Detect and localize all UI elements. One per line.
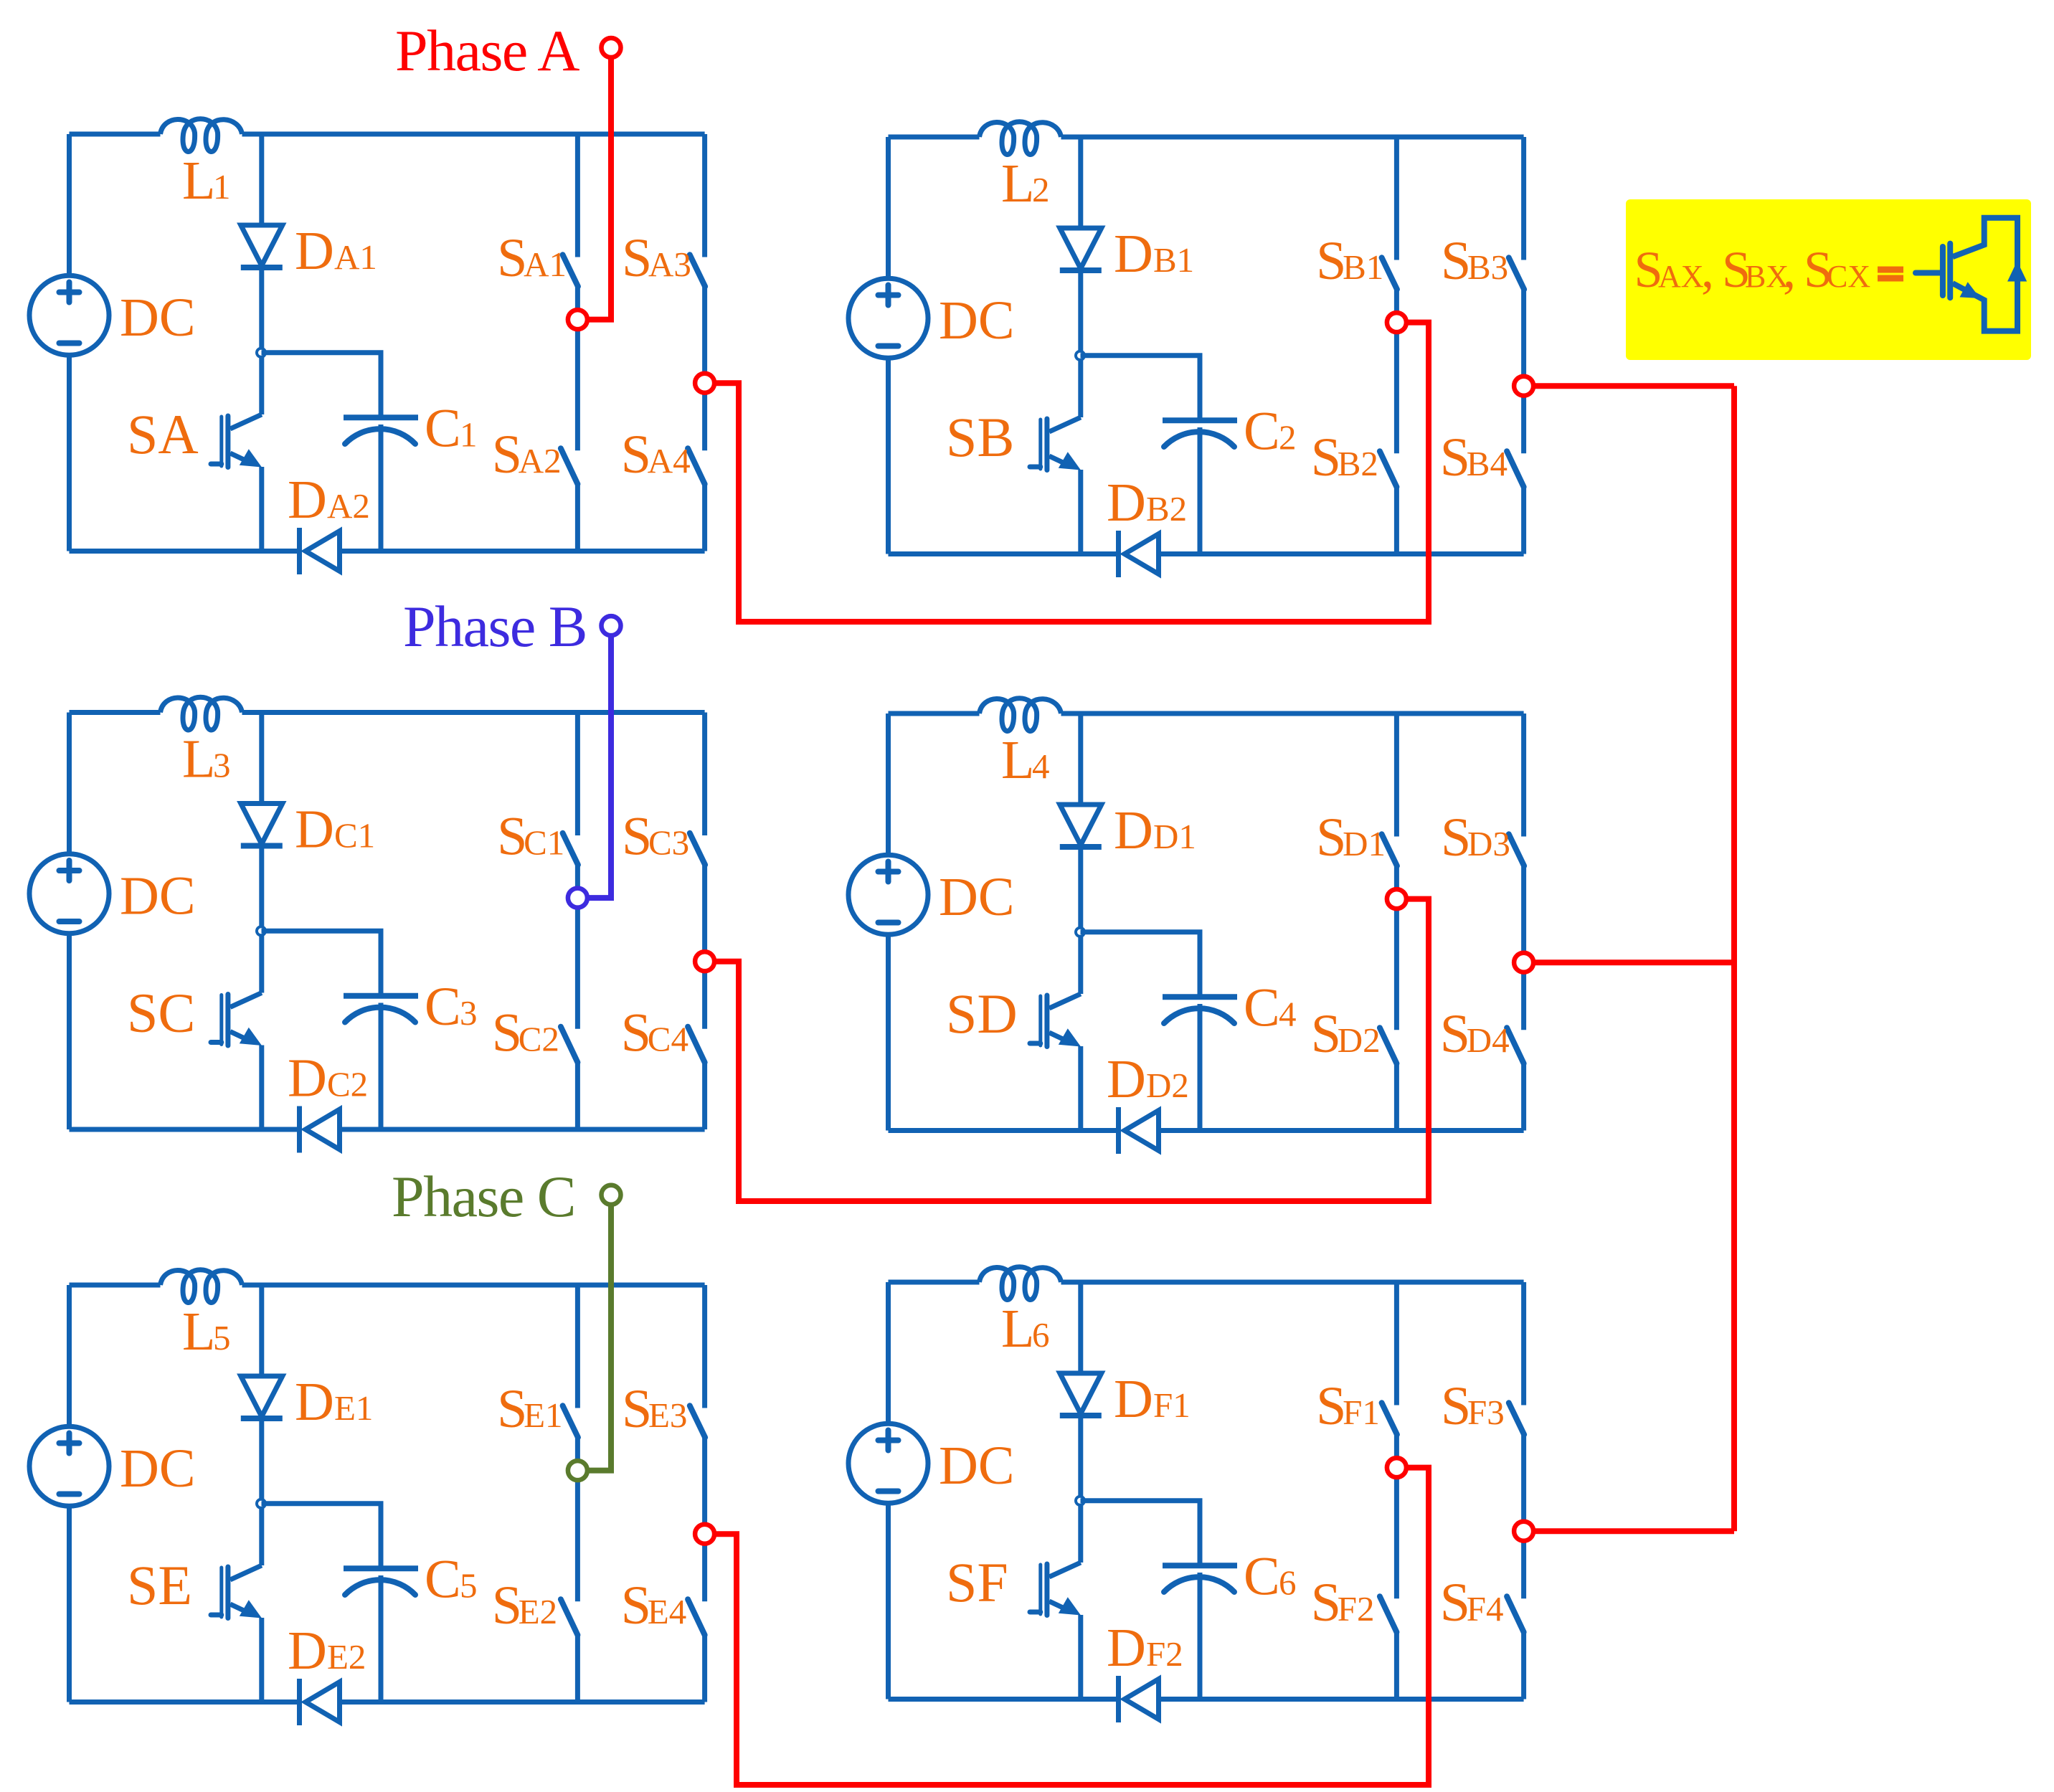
- svg-text:S: S: [1316, 1376, 1346, 1436]
- IGBT SF: [1030, 1610, 1041, 1615]
- svg-text:L: L: [182, 729, 215, 790]
- svg-text:B2: B2: [1338, 444, 1378, 483]
- svg-text:S: S: [621, 1003, 651, 1063]
- svg-text:D: D: [1107, 473, 1146, 533]
- switch SA1: [575, 134, 580, 257]
- svg-text:L: L: [182, 151, 215, 211]
- wire: leg2 middle: [702, 865, 707, 1029]
- svg-text:D: D: [1114, 800, 1153, 861]
- svg-text:E2: E2: [519, 1592, 557, 1631]
- svg-text:SF: SF: [946, 1551, 1008, 1613]
- capacitor C6: [1163, 1563, 1237, 1568]
- wire: node to capacitor: [1081, 1501, 1201, 1563]
- svg-text:D: D: [1114, 1369, 1153, 1429]
- svg-text:C: C: [425, 977, 461, 1037]
- node: phase B to SC1/SC2 midpoint: [568, 888, 587, 908]
- switch SB3: [1521, 137, 1526, 260]
- Phase C terminal: [602, 1185, 621, 1205]
- DC source SF: [848, 1423, 928, 1503]
- Phase B terminal: [602, 616, 621, 635]
- switch SD1: [1394, 714, 1399, 837]
- svg-text:D1: D1: [1153, 817, 1196, 856]
- wire: cell SF top rail: [889, 1280, 980, 1285]
- svg-text:C1: C1: [524, 823, 564, 863]
- node: phase C to SE1/SE2 midpoint: [568, 1461, 587, 1480]
- svg-text:A3: A3: [648, 245, 691, 284]
- switch SD2: [1380, 1028, 1397, 1063]
- svg-text:F2: F2: [1146, 1634, 1183, 1674]
- switch SF2: [1380, 1596, 1397, 1632]
- svg-text:C3: C3: [648, 823, 689, 863]
- svg-text:S: S: [1311, 1573, 1341, 1633]
- svg-text:S: S: [492, 425, 522, 485]
- svg-text:L: L: [1001, 1299, 1034, 1359]
- switch SF3: [1521, 1282, 1526, 1405]
- inductor L1: [161, 119, 242, 152]
- diode DE1: [259, 1285, 264, 1376]
- inductor L6: [980, 1267, 1061, 1300]
- svg-text:Phase B: Phase B: [403, 594, 587, 659]
- switch SA4: [688, 448, 705, 484]
- svg-text:E4: E4: [648, 1592, 686, 1631]
- wire: cell C output to cell D input: [714, 899, 1429, 1201]
- diode DA2: [297, 528, 302, 574]
- svg-text:S: S: [1440, 1573, 1470, 1633]
- wire: cell SE left rail: [67, 1285, 72, 1427]
- svg-text:CX: CX: [1827, 259, 1870, 294]
- IGBT SE: [211, 1613, 222, 1618]
- svg-text:2: 2: [1279, 418, 1297, 458]
- DC source SD: [848, 855, 928, 934]
- wire: cell SD bottom rail: [889, 1128, 1119, 1133]
- svg-text:B1: B1: [1343, 247, 1383, 287]
- svg-text:B1: B1: [1153, 240, 1194, 280]
- diode DD2: [1116, 1107, 1121, 1154]
- wire: cell A output to cell B input: [714, 323, 1429, 622]
- svg-text:DC: DC: [120, 1438, 196, 1499]
- switch SE3: [702, 1285, 707, 1408]
- wire: Phase C lead: [587, 1206, 611, 1471]
- svg-text:C: C: [1244, 1547, 1280, 1607]
- diode DA1: [259, 134, 264, 225]
- capacitor C4: [1163, 994, 1237, 1000]
- svg-text:S: S: [497, 1379, 527, 1439]
- wire: cell D output to neutral bus: [1533, 959, 1734, 965]
- wire: cell SE bottom rail: [70, 1699, 300, 1705]
- wire: cell SB bottom rail: [889, 551, 1119, 556]
- capacitor C3: [344, 993, 418, 999]
- node: [257, 1499, 265, 1508]
- svg-text:D1: D1: [1343, 824, 1386, 863]
- svg-text:AX: AX: [1658, 259, 1704, 294]
- svg-text:A1: A1: [524, 245, 567, 284]
- node: [257, 349, 265, 357]
- svg-text:,: ,: [1701, 241, 1714, 298]
- svg-text:4: 4: [1032, 746, 1050, 786]
- svg-text:B2: B2: [1146, 489, 1187, 528]
- wire: leg1 middle: [575, 865, 580, 1029]
- wire: leg1 middle: [1394, 1434, 1399, 1598]
- wire: Phase B lead: [587, 637, 611, 898]
- svg-text:S: S: [1441, 231, 1471, 291]
- wire: node to capacitor: [1081, 932, 1201, 995]
- svg-text:Phase A: Phase A: [395, 18, 579, 83]
- switch SC3: [702, 713, 707, 836]
- wire: cell SF bottom rail: [889, 1697, 1119, 1702]
- svg-text:6: 6: [1032, 1315, 1050, 1355]
- capacitor C5: [344, 1565, 418, 1571]
- wire: cell SC top rail: [70, 710, 161, 715]
- node: [257, 926, 265, 935]
- diode DF2: [1116, 1676, 1121, 1722]
- diode DF1: [1078, 1282, 1083, 1373]
- svg-text:F3: F3: [1467, 1393, 1505, 1432]
- svg-text:S: S: [622, 807, 652, 867]
- svg-text:Phase C: Phase C: [392, 1164, 575, 1229]
- wire: diode to node: [1078, 1416, 1083, 1563]
- inductor L5: [161, 1270, 242, 1303]
- wire: neutral bus: [1731, 386, 1737, 1531]
- inductor L2: [980, 122, 1061, 155]
- switch SF1: [1394, 1282, 1399, 1405]
- wire: leg1 middle: [1394, 866, 1399, 1030]
- svg-text:D: D: [295, 800, 334, 860]
- diode DB2: [1116, 531, 1121, 577]
- svg-text:5: 5: [213, 1318, 231, 1357]
- svg-text:S: S: [497, 807, 527, 867]
- wire: cell F output to neutral bus: [1533, 1528, 1734, 1534]
- switch SC2: [561, 1027, 578, 1063]
- svg-text:DC: DC: [120, 866, 196, 926]
- svg-text:SD: SD: [946, 982, 1018, 1045]
- node: phase A to SA1/SA2 midpoint: [568, 310, 587, 329]
- wire: cell SD left rail: [886, 714, 891, 855]
- wire: node to capacitor: [1081, 356, 1201, 418]
- svg-text:,: ,: [1783, 241, 1796, 298]
- node: SA3/SA4 midpoint output: [695, 374, 714, 393]
- node: [1076, 928, 1084, 937]
- IGBT SB: [1030, 465, 1041, 470]
- diode DC1: [259, 713, 264, 804]
- svg-text:4: 4: [1279, 995, 1297, 1034]
- wire: cell SA top rail: [70, 132, 161, 137]
- svg-text:E3: E3: [648, 1395, 687, 1435]
- wire: leg2 middle: [702, 286, 707, 450]
- wire: cell SB left rail: [886, 137, 891, 279]
- wire: leg2 middle: [1521, 1434, 1526, 1598]
- switch SE2: [561, 1599, 578, 1635]
- svg-text:D: D: [295, 1372, 334, 1432]
- wire: cell SA left rail: [67, 134, 72, 276]
- svg-text:D2: D2: [1146, 1066, 1189, 1105]
- IGBT SA: [211, 462, 222, 467]
- wire: Phase A lead: [587, 59, 611, 320]
- svg-text:L: L: [1001, 730, 1034, 790]
- svg-text:B4: B4: [1467, 444, 1508, 483]
- wire: cell SD top rail: [889, 711, 980, 716]
- svg-text:D4: D4: [1467, 1020, 1510, 1060]
- switch SB4: [1507, 451, 1524, 487]
- wire: diode to node: [259, 846, 264, 993]
- svg-text:BX: BX: [1745, 259, 1789, 294]
- inductor L3: [161, 697, 242, 730]
- wire: leg1 middle: [1394, 289, 1399, 453]
- capacitor C1: [344, 414, 418, 420]
- svg-text:A1: A1: [334, 237, 377, 277]
- wire: diode to node: [259, 267, 264, 414]
- svg-text:E1: E1: [334, 1388, 373, 1428]
- svg-text:DC: DC: [939, 1436, 1015, 1496]
- wire: cell SE top rail: [70, 1283, 161, 1288]
- wire: cell E output to cell F input: [714, 1468, 1429, 1785]
- wire: leg2 middle: [1521, 866, 1526, 1030]
- svg-text:SC: SC: [127, 982, 195, 1044]
- wire: node to capacitor: [262, 931, 382, 993]
- svg-text:D: D: [1107, 1618, 1146, 1678]
- node: [1076, 1497, 1084, 1505]
- svg-text:S: S: [1316, 807, 1346, 868]
- svg-text:C2: C2: [327, 1065, 368, 1104]
- svg-text:S: S: [1440, 1004, 1470, 1064]
- node: SD3/SD4 midpoint to bus: [1514, 953, 1533, 972]
- switch SE1: [575, 1285, 580, 1408]
- svg-text:S: S: [622, 1379, 652, 1439]
- node: SF3/SF4 midpoint to bus: [1514, 1522, 1533, 1541]
- wire: leg2 middle: [1521, 289, 1526, 453]
- svg-text:S: S: [492, 1575, 522, 1636]
- svg-text:6: 6: [1279, 1563, 1297, 1603]
- node: SF1/SF2 midpoint input: [1387, 1458, 1406, 1477]
- svg-text:E2: E2: [327, 1637, 366, 1677]
- svg-text:A4: A4: [648, 441, 691, 480]
- node: SD1/SD2 midpoint input: [1387, 889, 1406, 909]
- svg-text:S: S: [497, 228, 527, 288]
- node: [1076, 351, 1084, 360]
- svg-text:SB: SB: [946, 406, 1014, 468]
- svg-text:D: D: [295, 221, 334, 281]
- svg-text:S: S: [1441, 807, 1471, 868]
- svg-text:S: S: [1440, 427, 1470, 488]
- svg-text:S: S: [621, 425, 651, 485]
- svg-text:D: D: [1114, 224, 1153, 284]
- switch SE4: [688, 1599, 705, 1635]
- svg-text:DC: DC: [939, 867, 1015, 927]
- switch SF4: [1507, 1596, 1524, 1632]
- svg-text:C: C: [1244, 402, 1280, 462]
- wire: diode to node: [259, 1418, 264, 1565]
- svg-text:C2: C2: [519, 1020, 559, 1059]
- wire: node to capacitor: [262, 353, 382, 415]
- svg-text:F1: F1: [1153, 1385, 1191, 1425]
- switch SA2: [561, 448, 578, 484]
- diode DD1: [1078, 714, 1083, 805]
- svg-text:S: S: [492, 1003, 522, 1063]
- wire: diode to node: [1078, 847, 1083, 994]
- svg-text:D3: D3: [1467, 824, 1510, 863]
- diode DE2: [297, 1679, 302, 1725]
- inductor L4: [980, 698, 1061, 731]
- svg-text:S: S: [1311, 1004, 1341, 1064]
- svg-text:1: 1: [213, 167, 231, 207]
- IGBT SC: [211, 1040, 222, 1045]
- wire: leg1 middle: [575, 1437, 580, 1601]
- switch SD4: [1507, 1028, 1524, 1063]
- svg-text:D: D: [288, 1048, 327, 1109]
- DC source SB: [848, 278, 928, 358]
- svg-text:L: L: [1001, 153, 1034, 214]
- svg-text:S: S: [621, 1575, 651, 1636]
- svg-text:A2: A2: [519, 441, 562, 480]
- node: SB1/SB2 midpoint input: [1387, 313, 1406, 332]
- svg-text:C: C: [425, 399, 461, 459]
- svg-text:F4: F4: [1467, 1589, 1504, 1629]
- wire: cell SB top rail: [889, 135, 980, 140]
- wire: cell SC bottom rail: [70, 1127, 300, 1132]
- legend IGBT symbol: [1916, 218, 2017, 331]
- legend box: [1626, 199, 2031, 360]
- svg-text:C: C: [1244, 978, 1280, 1038]
- svg-text:3: 3: [213, 746, 231, 785]
- svg-text:S: S: [622, 228, 652, 288]
- wire: leg1 middle: [575, 286, 580, 450]
- svg-text:L: L: [182, 1302, 215, 1362]
- svg-text:S: S: [1441, 1376, 1471, 1436]
- switch SC4: [688, 1027, 705, 1063]
- svg-text:1: 1: [460, 415, 478, 455]
- svg-text:D: D: [288, 470, 327, 530]
- Phase A terminal: [602, 38, 621, 57]
- switch SA3: [702, 134, 707, 257]
- wire: cell SF left rail: [886, 1282, 891, 1424]
- svg-text:E1: E1: [524, 1395, 562, 1435]
- svg-text:F1: F1: [1343, 1393, 1380, 1432]
- DC source SC: [29, 854, 109, 934]
- svg-text:C: C: [425, 1550, 461, 1610]
- svg-text:S: S: [1311, 427, 1341, 488]
- wire: leg2 middle: [702, 1437, 707, 1601]
- diode DB1: [1078, 137, 1083, 228]
- wire: cell SC left rail: [67, 713, 72, 855]
- node: SC3/SC4 midpoint output: [695, 952, 714, 971]
- svg-text:F2: F2: [1338, 1589, 1375, 1629]
- legend equals sign: [1878, 267, 1903, 273]
- wire: node to capacitor: [262, 1504, 382, 1566]
- svg-text:SA: SA: [127, 403, 199, 465]
- svg-text:D: D: [1107, 1049, 1146, 1109]
- svg-text:SE: SE: [127, 1554, 192, 1616]
- DC source SA: [29, 275, 109, 355]
- switch SB1: [1394, 137, 1399, 260]
- svg-text:5: 5: [460, 1566, 478, 1606]
- svg-text:DC: DC: [939, 290, 1015, 351]
- wire: diode to node: [1078, 270, 1083, 417]
- svg-text:B3: B3: [1467, 247, 1508, 287]
- switch SB2: [1380, 451, 1397, 487]
- wire: cell SA bottom rail: [70, 549, 300, 554]
- svg-text:D: D: [288, 1621, 327, 1681]
- diode DC2: [297, 1106, 302, 1153]
- DC source SE: [29, 1426, 109, 1506]
- switch SD3: [1521, 714, 1526, 837]
- IGBT SD: [1030, 1041, 1041, 1046]
- svg-text:C1: C1: [334, 816, 375, 855]
- svg-text:3: 3: [460, 993, 478, 1033]
- svg-text:C4: C4: [648, 1020, 688, 1059]
- svg-text:A2: A2: [327, 486, 370, 526]
- svg-text:DC: DC: [120, 288, 196, 348]
- node: SB3/SB4 midpoint to bus: [1514, 376, 1533, 396]
- svg-text:2: 2: [1032, 170, 1050, 209]
- node: SE3/SE4 midpoint output: [695, 1525, 714, 1544]
- capacitor C2: [1163, 417, 1237, 423]
- svg-text:D2: D2: [1338, 1020, 1381, 1060]
- svg-text:S: S: [1316, 231, 1346, 291]
- wire: cell B output to neutral bus: [1533, 383, 1734, 389]
- switch SC1: [575, 713, 580, 836]
